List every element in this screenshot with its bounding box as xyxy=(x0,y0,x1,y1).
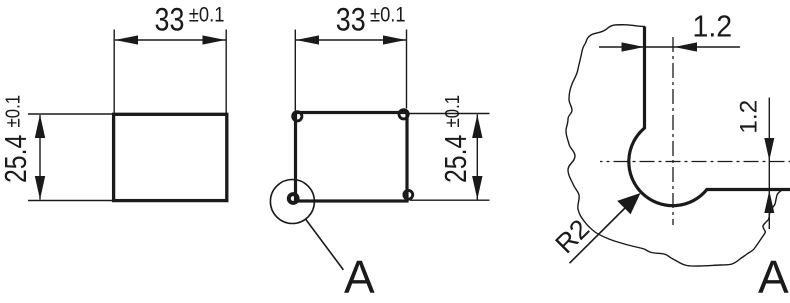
leader line R2 (detail A) xyxy=(570,204,630,263)
arrowhead down (25.4 dim, middle view) xyxy=(472,176,482,200)
extension line top (25.4 dim, middle view) xyxy=(409,113,490,115)
arrowhead right (33 dim, middle view) xyxy=(383,35,406,44)
arrowhead up (25.4 dim, left view) xyxy=(35,115,45,139)
svg-text:A: A xyxy=(758,251,789,303)
svg-text:±0.1: ±0.1 xyxy=(189,3,225,26)
svg-text:±0.1: ±0.1 xyxy=(370,3,406,26)
extension line top (25.4 dim, left view) xyxy=(28,113,117,115)
arrowhead up (25.4 dim, middle view) xyxy=(472,115,482,139)
vertical centerline (detail A, dash-dot) xyxy=(672,35,674,225)
detail indicator circle A (middle view bottom-left corner) xyxy=(270,180,314,224)
left view rectangle outline xyxy=(114,114,227,200)
arrowhead left (33 dim, left view) xyxy=(115,35,138,44)
extension line right (33 dim, left view) xyxy=(225,30,227,114)
arrowhead pointing up at part edge (1.2 right dim) xyxy=(764,191,774,214)
svg-text:25.4: 25.4 xyxy=(438,135,472,183)
dimension line 1.2 vertical (detail A right) xyxy=(768,98,770,230)
corner radius loop top-right (middle view) xyxy=(399,110,408,119)
horizontal centerline (detail A, dash-dot) xyxy=(600,161,790,163)
dimension line 25.4 (left view) xyxy=(39,115,41,200)
arrowhead down (25.4 dim, left view) xyxy=(35,176,45,200)
svg-text:25.4: 25.4 xyxy=(0,135,33,183)
dimension line 1.2 horizontal (detail A top) xyxy=(599,46,740,48)
extension line bottom (25.4 dim, left view) xyxy=(28,200,117,202)
svg-text:±0.1: ±0.1 xyxy=(1,95,24,128)
dimension line 33 (left view) xyxy=(115,39,226,41)
arrowhead R2 leader (points at fillet arc) xyxy=(617,193,640,214)
dimension line 33 (middle view) xyxy=(296,39,406,41)
svg-text:1.2: 1.2 xyxy=(693,10,733,44)
extension line left (33 dim, middle view) xyxy=(294,30,296,111)
svg-text:1.2: 1.2 xyxy=(736,100,763,134)
svg-text:±0.1: ±0.1 xyxy=(440,95,463,128)
corner radius loop top-left (middle view) xyxy=(293,112,302,121)
arrowhead pointing down at centerline (1.2 right dim) xyxy=(764,138,774,161)
dimension line 25.4 (middle view) xyxy=(476,115,478,200)
svg-text:33: 33 xyxy=(155,2,185,38)
arrowhead right (33 dim, left view) xyxy=(203,35,226,44)
extension line bottom (25.4 dim, middle view) xyxy=(410,199,490,201)
corner radius loop bottom-right (middle view) xyxy=(404,190,413,199)
arrowhead left (33 dim, middle view) xyxy=(296,35,319,44)
svg-text:A: A xyxy=(344,251,375,303)
extension line left (33 dim, left view) xyxy=(113,30,115,114)
arrowhead pointing left at centerline (1.2 top dim) xyxy=(674,42,697,51)
leader line to label A (middle view) xyxy=(306,219,344,270)
arrowhead pointing right at part edge (1.2 top dim) xyxy=(622,42,645,51)
middle view rectangle outline xyxy=(296,113,408,202)
part edge profile with R2 relief (thick outline, detail A) xyxy=(629,27,790,206)
break line (wavy freehand outline of detail A) xyxy=(566,25,782,266)
corner radius loop bottom-left (middle view) xyxy=(289,194,298,203)
extension line right (33 dim, middle view) xyxy=(406,30,408,109)
svg-text:33: 33 xyxy=(336,2,366,38)
